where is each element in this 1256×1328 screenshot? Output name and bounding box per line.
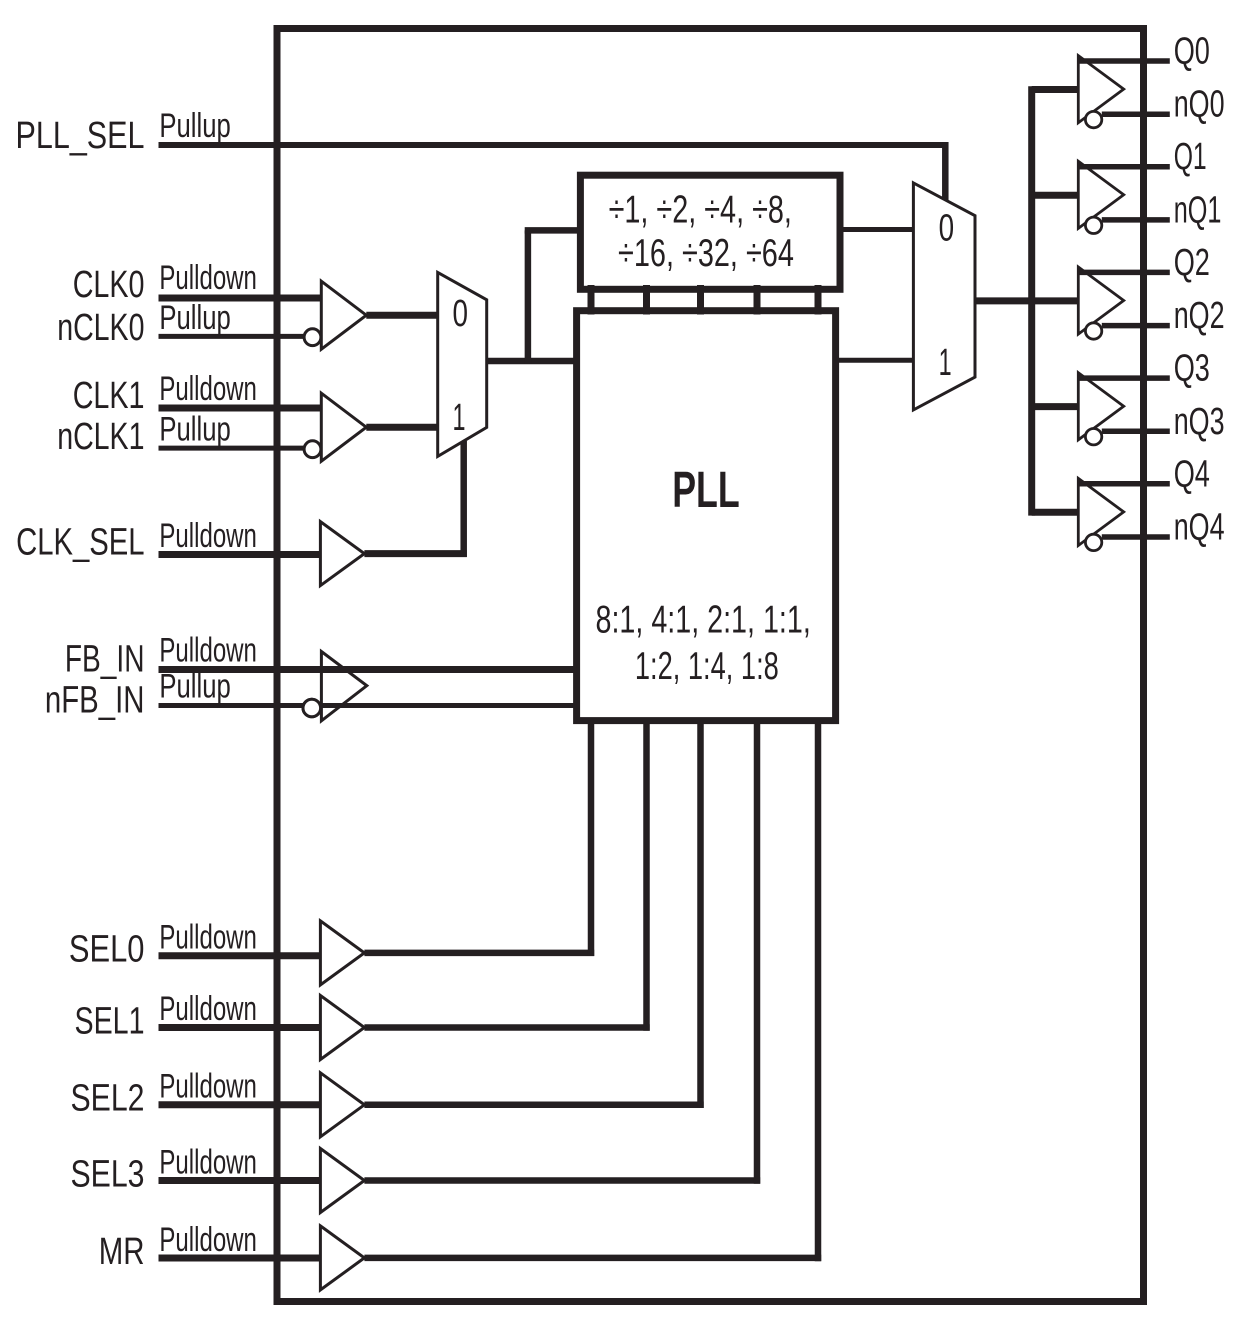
wire MR to PLL [364, 1255, 821, 1262]
wire bus to buffer Q0 [1032, 86, 1079, 93]
svg-text:nCLK0: nCLK0 [57, 307, 144, 349]
wire nQ4 output stub [1102, 534, 1170, 540]
svg-text:Pullup: Pullup [159, 410, 230, 448]
wire SEL0 to PLL [364, 950, 594, 957]
wire CLK0 input [159, 295, 322, 302]
svg-text:÷16, ÷32, ÷64: ÷16, ÷32, ÷64 [618, 232, 794, 275]
output buffer Q3/nQ3 [1078, 373, 1123, 445]
wire buffer CLK1 out to input mux 1 [366, 424, 437, 431]
wire nFB_IN input to PLL [159, 703, 577, 708]
svg-text:Pullup: Pullup [159, 667, 230, 705]
wire riser to divider [525, 230, 532, 364]
wire PLL to output mux 1 [836, 358, 914, 363]
svg-text:nCLK1: nCLK1 [57, 416, 144, 458]
output buffer Q2/nQ2 [1078, 267, 1123, 339]
svg-text:FB_IN: FB_IN [65, 639, 145, 681]
wire SEL2 to PLL [364, 1102, 703, 1109]
wire nQ2 output stub [1102, 323, 1170, 329]
wire Q3 output stub [1079, 375, 1170, 381]
svg-text:0: 0 [453, 293, 469, 335]
svg-text:nQ0: nQ0 [1174, 84, 1225, 126]
wire CLK_SEL vertical riser [460, 441, 467, 557]
svg-text:1: 1 [939, 342, 952, 384]
wire Q2 output stub [1079, 270, 1170, 276]
wire nQ1 output stub [1102, 217, 1170, 223]
svg-text:PLL_SEL: PLL_SEL [16, 115, 145, 157]
wire output mux to buffers [975, 297, 1078, 304]
svg-text:nQ4: nQ4 [1174, 507, 1225, 549]
wire input mux out to PLL [487, 358, 577, 365]
svg-text:Q4: Q4 [1174, 453, 1210, 495]
input buffer MR [320, 1226, 364, 1290]
wire SEL3 to PLL [364, 1177, 760, 1184]
svg-text:Pulldown: Pulldown [159, 1143, 257, 1181]
wire Q4 output stub [1079, 481, 1170, 487]
input buffer FB_IN/nFB_IN [303, 652, 367, 721]
svg-text:nFB_IN: nFB_IN [45, 679, 145, 721]
wire divider to output mux 0 [840, 227, 913, 232]
wire output distribution bus [1028, 86, 1035, 515]
svg-text:CLK_SEL: CLK_SEL [16, 522, 144, 564]
svg-text:nQ3: nQ3 [1174, 401, 1225, 443]
output buffer Q1/nQ1 [1078, 161, 1123, 233]
wire nCLK1 input [159, 446, 305, 451]
wire Q1 output stub [1079, 164, 1170, 170]
wire SEL3 input [159, 1177, 321, 1184]
bubble nFB_IN [303, 699, 321, 717]
svg-text:8:1, 4:1, 2:1, 1:1,: 8:1, 4:1, 2:1, 1:1, [596, 598, 811, 641]
svg-text:Pullup: Pullup [159, 299, 230, 337]
input buffer SEL2 [320, 1073, 364, 1137]
svg-text:Pulldown: Pulldown [159, 632, 257, 670]
svg-text:PLL: PLL [672, 461, 740, 518]
wire Q0 output stub [1079, 58, 1170, 64]
wire CLK1 input [159, 405, 322, 412]
wire CLK_SEL input [159, 551, 321, 558]
divider box [580, 175, 840, 289]
output buffer Q0/nQ0 [1078, 56, 1123, 128]
input buffer SEL1 [320, 996, 364, 1060]
wire SEL2 input [159, 1101, 321, 1108]
svg-text:CLK0: CLK0 [73, 264, 145, 306]
wire PLL_SEL net [159, 142, 946, 148]
wire SEL1 to PLL [364, 1024, 649, 1031]
input buffer CLK0/nCLK0 [304, 281, 366, 349]
wire PLL_SEL vertical to output mux select [942, 142, 949, 201]
svg-text:0: 0 [939, 208, 955, 250]
PLL box [577, 311, 836, 721]
svg-text:÷1, ÷2, ÷4, ÷8,: ÷1, ÷2, ÷4, ÷8, [609, 188, 792, 231]
svg-text:Q0: Q0 [1174, 31, 1210, 73]
chip boundary box [277, 29, 1144, 1302]
svg-text:Pulldown: Pulldown [159, 1068, 257, 1106]
input buffer CLK_SEL [320, 522, 364, 586]
svg-text:Pulldown: Pulldown [159, 370, 257, 408]
svg-text:Pulldown: Pulldown [159, 990, 257, 1028]
wire bus to buffer Q3 [1032, 403, 1079, 410]
svg-text:Pulldown: Pulldown [159, 1221, 257, 1259]
svg-text:Pulldown: Pulldown [159, 919, 257, 957]
svg-text:1: 1 [453, 397, 466, 439]
wire bus to buffer Q4 [1032, 509, 1079, 516]
bus stubs divider to PLL [588, 285, 595, 315]
wire buffer CLK0 out to input mux 0 [366, 312, 437, 319]
input buffer SEL3 [320, 1149, 364, 1213]
svg-text:Pulldown: Pulldown [159, 517, 257, 555]
svg-text:Q1: Q1 [1174, 136, 1207, 178]
svg-text:1:2, 1:4, 1:8: 1:2, 1:4, 1:8 [635, 645, 779, 688]
input buffer CLK1/nCLK1 [304, 393, 366, 461]
wire MR input [159, 1255, 321, 1262]
svg-text:CLK1: CLK1 [73, 375, 145, 417]
svg-text:nQ2: nQ2 [1174, 295, 1225, 337]
svg-text:SEL3: SEL3 [71, 1153, 145, 1195]
svg-text:nQ1: nQ1 [1174, 189, 1222, 231]
input buffer SEL0 [320, 921, 364, 985]
svg-text:SEL2: SEL2 [71, 1078, 145, 1120]
svg-text:Q3: Q3 [1174, 348, 1210, 390]
svg-text:Q2: Q2 [1174, 242, 1210, 284]
wire FB_IN over buffer [300, 666, 577, 673]
svg-text:SEL1: SEL1 [75, 1000, 145, 1042]
wire nCLK0 input [159, 334, 305, 339]
wire SEL1 input [159, 1024, 321, 1031]
wire FB_IN input to PLL [159, 666, 577, 673]
svg-text:Pullup: Pullup [159, 107, 230, 145]
svg-text:MR: MR [99, 1231, 145, 1273]
wire SEL0 input [159, 952, 321, 959]
input clock mux [438, 272, 487, 456]
wire nFB_IN over buffer [321, 703, 577, 708]
wire nQ3 output stub [1102, 429, 1170, 435]
wire CLK_SEL to input mux select [364, 550, 466, 557]
wire nQ0 output stub [1102, 111, 1170, 117]
svg-text:SEL0: SEL0 [69, 929, 145, 971]
wire bus to buffer Q1 [1032, 192, 1079, 199]
svg-text:Pulldown: Pulldown [159, 259, 257, 297]
output buffer Q4/nQ4 [1078, 478, 1123, 550]
output mux [913, 183, 975, 410]
